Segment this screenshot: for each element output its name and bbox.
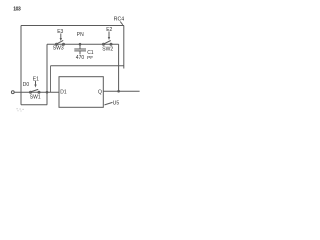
faint artifact dots xyxy=(17,108,24,111)
svg-text:PN: PN xyxy=(77,32,84,38)
arrow E2 xyxy=(108,32,110,38)
wire vertical x47 xyxy=(46,44,48,105)
svg-text:D1: D1 xyxy=(60,89,67,95)
svg-text:SW1: SW1 xyxy=(30,94,41,100)
outer loop bottom edge xyxy=(21,104,47,106)
svg-text:RC4: RC4 xyxy=(114,17,124,23)
wire SW2 down to Q xyxy=(118,44,120,91)
flip-flop box U1 xyxy=(59,77,103,108)
node junction x47 on D wire xyxy=(46,91,49,94)
switch SW2 xyxy=(103,43,105,45)
outer loop top edge xyxy=(21,25,124,27)
wire Q output xyxy=(103,90,139,92)
terminal input left xyxy=(11,91,14,94)
arrow E3 xyxy=(60,34,62,39)
arrow E1 xyxy=(35,81,37,85)
svg-text:470: 470 xyxy=(76,55,85,61)
outer loop left edge xyxy=(20,26,22,105)
svg-text:SW3: SW3 xyxy=(53,46,64,52)
node junction Q wire xyxy=(117,90,120,93)
svg-text:Q: Q xyxy=(98,89,102,95)
switch SW1 xyxy=(30,91,32,93)
leader U5 xyxy=(105,102,113,105)
svg-text:U5: U5 xyxy=(113,100,120,106)
svg-text:103: 103 xyxy=(13,7,21,13)
switch SW3 xyxy=(56,43,58,45)
wire middle-left vertical xyxy=(50,66,52,93)
node junction C1 top xyxy=(79,43,82,46)
leader RC4 xyxy=(120,22,123,25)
wire middle horizontal xyxy=(51,65,124,67)
wire top branch xyxy=(47,43,119,45)
wire D input xyxy=(14,91,59,93)
svg-text:PF: PF xyxy=(87,55,93,61)
capacitor C1 xyxy=(79,44,81,49)
svg-text:SW2: SW2 xyxy=(102,47,113,53)
svg-text:D0: D0 xyxy=(23,82,30,88)
outer loop right edge xyxy=(123,26,125,69)
